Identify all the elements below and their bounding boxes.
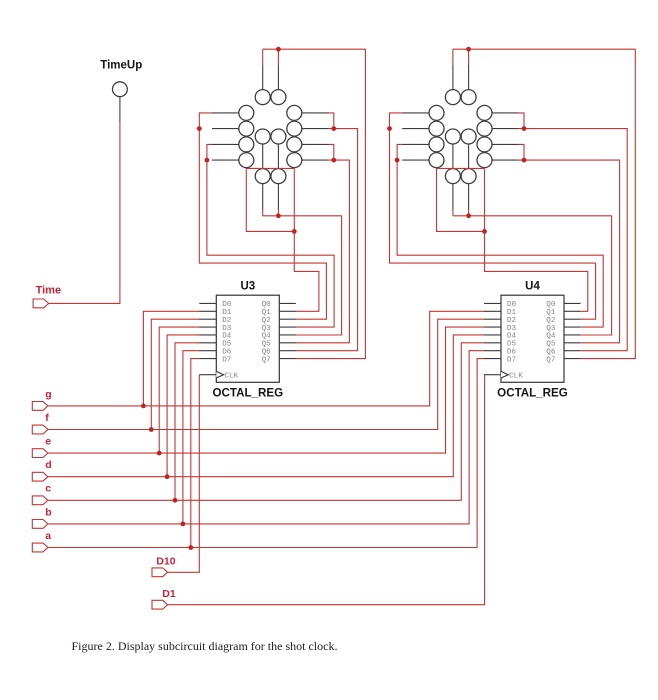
svg-text:Q5: Q5: [546, 341, 556, 349]
LED display DS2 segment-d LEDs (bottom pair): [445, 169, 476, 184]
svg-text:OCTAL_REG: OCTAL_REG: [212, 386, 283, 399]
label e: [45, 436, 51, 448]
svg-text:Figure 2. Display subcircuit d: Figure 2. Display subcircuit diagram for…: [72, 639, 338, 653]
junction display DS2 segment-a: [466, 47, 471, 52]
junction display DS1 segment-f: [197, 126, 202, 131]
junction display DS1 segment-d: [276, 213, 281, 218]
svg-text:a: a: [45, 530, 51, 542]
label f: [45, 412, 49, 424]
LED display DS1 segment-f LEDs (upper-left pair): [239, 105, 254, 136]
junction net c branch to U3: [173, 498, 178, 503]
svg-text:D7: D7: [507, 356, 516, 364]
wire net display DS1 column returns to Q1: [246, 168, 319, 312]
wire net display DS1 segment-d to Q4: [263, 210, 342, 335]
display DS1 segment-e LED leads: [212, 144, 239, 160]
junction display DS1 segment-c: [331, 158, 336, 163]
svg-text:Q1: Q1: [546, 309, 556, 317]
wire net display DS2 column returns to Q1: [437, 168, 588, 312]
port Time connector: [33, 299, 49, 308]
display DS2 segment-c LED leads: [492, 144, 519, 160]
label U4 reference designator: [525, 281, 540, 293]
svg-text:Q6: Q6: [262, 349, 272, 357]
svg-text:D2: D2: [507, 317, 517, 325]
svg-text:Time: Time: [36, 285, 61, 297]
wire net display DS2 segment-f to Q2: [390, 113, 596, 319]
junction display DS1 segment-e: [205, 158, 210, 163]
svg-text:g: g: [45, 388, 51, 400]
wire net c (to U3.D5 and U4.D5): [48, 343, 484, 501]
junction display DS2 segment-f: [387, 126, 392, 131]
svg-text:Q3: Q3: [546, 325, 556, 333]
wire net display DS1 segment-f to Q2: [199, 113, 326, 319]
svg-text:Q2: Q2: [262, 317, 272, 325]
svg-text:Q7: Q7: [546, 356, 555, 364]
svg-text:Q4: Q4: [546, 333, 556, 341]
U3 pin labels D0-D7 Q0-Q7 CLK: [222, 301, 271, 380]
register U3 body OCTAL_REG: [216, 295, 279, 382]
wire net display DS1 segment-c to Q5: [296, 144, 350, 342]
indicator TimeUp terminal circle: [113, 82, 128, 97]
svg-text:D1: D1: [222, 309, 232, 317]
label U3 reference designator: [240, 281, 255, 293]
svg-text:D4: D4: [507, 333, 517, 341]
wire net display DS1 segment-e to Q3: [207, 144, 334, 327]
U4 clock input wedge: [501, 371, 508, 378]
port d connector: [32, 472, 48, 481]
svg-text:TimeUp: TimeUp: [100, 60, 142, 72]
wire net g (to U3.D1 and U4.D1): [48, 311, 484, 406]
svg-text:D7: D7: [222, 356, 231, 364]
junction net d branch to U3: [165, 474, 170, 479]
wire net f (to U3.D2 and U4.D2): [48, 319, 484, 429]
display DS2 segment-b LED leads: [492, 113, 519, 129]
svg-text:U4: U4: [525, 281, 540, 293]
U4 pin labels D0-D7 Q0-Q7 CLK: [507, 301, 556, 380]
label g: [45, 388, 51, 400]
junction display DS2 segment-d: [466, 213, 471, 218]
port a connector: [32, 543, 48, 552]
LED display DS2 segment-f LEDs (upper-left pair): [429, 105, 444, 136]
wire net e (to U3.D3 and U4.D3): [48, 327, 484, 453]
svg-text:D4: D4: [222, 333, 232, 341]
svg-text:f: f: [45, 412, 49, 424]
port e connector: [32, 449, 48, 458]
junction net e branch to U3: [157, 451, 162, 456]
junction display DS2 return net: [482, 229, 487, 234]
svg-text:Q5: Q5: [262, 341, 272, 349]
svg-text:CLK: CLK: [224, 373, 238, 381]
register U4 body OCTAL_REG: [501, 295, 564, 382]
svg-text:D1: D1: [162, 588, 176, 600]
svg-text:e: e: [45, 436, 51, 448]
label a: [45, 530, 51, 542]
svg-text:Q1: Q1: [262, 309, 272, 317]
svg-text:D3: D3: [507, 325, 517, 333]
display DS2 segment-a LED leads: [453, 65, 469, 90]
junction display DS1 segment-b: [331, 126, 336, 131]
LED display DS1 segment-e LEDs (lower-left pair): [239, 137, 254, 168]
svg-text:D10: D10: [156, 556, 175, 568]
U4 output pin stubs Q0-Q7: [564, 303, 581, 358]
label U4 OCTAL_REG part name: [497, 386, 568, 399]
display DS2 segment-e LED leads: [402, 144, 429, 160]
wire net display DS2 segment-d to Q4: [453, 210, 612, 335]
display DS1 segment-c LED leads: [302, 144, 329, 160]
LED display DS1 segment-d LEDs (bottom pair): [255, 169, 286, 184]
svg-text:d: d: [45, 459, 51, 471]
display DS1 segment-d LED bottom leads: [263, 184, 279, 210]
svg-text:CLK: CLK: [509, 373, 523, 381]
junction display DS1 return net: [292, 229, 297, 234]
label Time: [36, 285, 61, 297]
svg-text:U3: U3: [240, 281, 255, 293]
junction display DS2 segment-b: [522, 126, 527, 131]
junction net g branch to U3: [141, 404, 146, 409]
display DS2 segment-f LED leads: [402, 113, 429, 129]
svg-text:D0: D0: [507, 301, 517, 309]
svg-text:D3: D3: [222, 325, 232, 333]
svg-text:Q0: Q0: [262, 301, 272, 309]
svg-text:D1: D1: [507, 309, 517, 317]
display DS1 segment-b LED leads: [302, 113, 329, 129]
LED display DS2 segment-a LEDs (top pair): [445, 90, 476, 105]
display DS1 segment-a LED leads: [263, 65, 279, 90]
junction display DS2 segment-c: [522, 158, 527, 163]
svg-text:b: b: [45, 506, 51, 518]
svg-text:Q0: Q0: [546, 301, 556, 309]
LED display DS2 segment-g LEDs (middle pair): [445, 129, 476, 144]
U3 input pin stubs D0-D7 and CLK: [199, 303, 216, 374]
junction net f branch to U3: [149, 427, 154, 432]
wire net Time to TimeUp: [49, 122, 120, 303]
svg-text:OCTAL_REG: OCTAL_REG: [497, 386, 568, 399]
label D10: [156, 556, 175, 568]
svg-text:Q7: Q7: [262, 356, 271, 364]
U3 output pin stubs Q0-Q7: [279, 303, 296, 358]
port c connector: [32, 496, 48, 505]
svg-text:Q3: Q3: [262, 325, 272, 333]
junction net b branch to U3: [181, 522, 186, 527]
svg-text:D5: D5: [222, 341, 232, 349]
svg-text:Q2: Q2: [546, 317, 556, 325]
caption Figure 2: [72, 639, 338, 653]
port D10 connector: [152, 568, 168, 577]
LED display DS2 segment-e LEDs (lower-left pair): [429, 137, 444, 168]
display DS1 segment-f LED leads: [212, 113, 239, 129]
junction display DS1 segment-a: [276, 47, 281, 52]
indicator TimeUp lead: [119, 97, 121, 123]
display DS1 segment-g to segment-d series leads: [263, 144, 279, 169]
LED display DS2 segment-c LEDs (lower-right pair): [477, 137, 492, 168]
svg-text:D0: D0: [222, 301, 232, 309]
display DS2 segment-g to segment-d series leads: [453, 144, 469, 169]
svg-text:D6: D6: [507, 349, 517, 357]
LED display DS1 segment-g LEDs (middle pair): [255, 129, 286, 144]
label c: [45, 483, 51, 495]
LED display DS1 segment-c LEDs (lower-right pair): [287, 137, 302, 168]
wire net display DS2 segment-e to Q3: [397, 144, 603, 327]
junction display DS2 segment-e: [395, 158, 400, 163]
LED display DS1 segment-b LEDs (upper-right pair): [287, 105, 302, 136]
port g connector: [32, 402, 48, 411]
wire net a (to U3.D7 and U4.D7): [48, 359, 484, 548]
display DS2 segment-d LED bottom leads: [453, 184, 469, 210]
svg-text:D2: D2: [222, 317, 232, 325]
wire net D1 to U4.CLK: [168, 375, 485, 605]
port b connector: [32, 520, 48, 529]
wire net b (to U3.D6 and U4.D6): [48, 351, 484, 524]
LED display DS1 segment-a LEDs (top pair): [255, 90, 286, 105]
label b: [45, 506, 51, 518]
svg-text:D6: D6: [222, 349, 232, 357]
svg-text:Q4: Q4: [262, 333, 272, 341]
label d: [45, 459, 51, 471]
svg-text:c: c: [45, 483, 51, 495]
wire net d (to U3.D4 and U4.D4): [48, 335, 484, 477]
wire net display DS2 segment-c to Q5: [519, 144, 620, 342]
label TimeUp: [100, 60, 142, 72]
wire net display DS1 segment-b to Q6: [296, 113, 358, 351]
wire net D10 to U3.CLK: [168, 375, 200, 573]
port D1 connector: [152, 600, 168, 609]
svg-text:Q6: Q6: [546, 349, 556, 357]
port f connector: [32, 425, 48, 434]
label D1: [162, 588, 176, 600]
U4 input pin stubs D0-D7 and CLK: [484, 303, 501, 374]
U3 clock input wedge: [216, 371, 223, 378]
wire net display DS2 segment-a to Q7: [453, 49, 635, 358]
wire net display DS1 segment-a to Q7: [263, 49, 366, 358]
svg-text:D5: D5: [507, 341, 517, 349]
wire net display DS2 segment-b to Q6: [519, 113, 628, 351]
LED display DS2 segment-b LEDs (upper-right pair): [477, 105, 492, 136]
junction net a branch to U3: [188, 545, 193, 550]
label U3 OCTAL_REG part name: [212, 386, 283, 399]
